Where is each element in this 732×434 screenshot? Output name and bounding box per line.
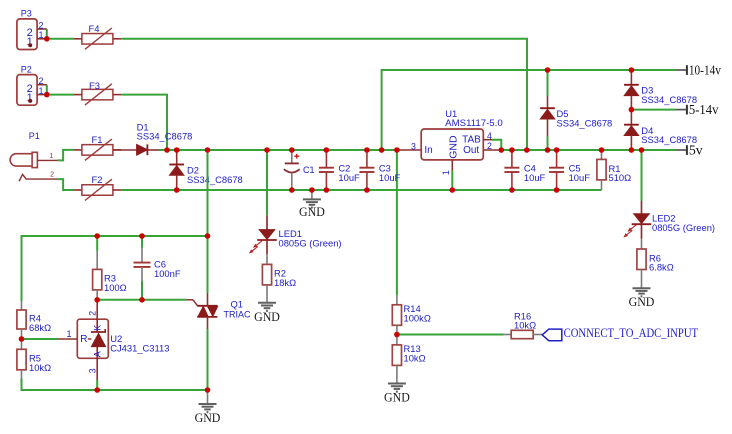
svg-text:2: 2 <box>487 141 492 151</box>
svg-text:1: 1 <box>441 170 451 175</box>
svg-text:GND: GND <box>299 204 325 219</box>
svg-text:2: 2 <box>88 311 98 316</box>
svg-text:GND: GND <box>447 135 459 159</box>
svg-text:10uF: 10uF <box>524 172 546 183</box>
svg-text:K: K <box>92 325 102 331</box>
svg-text:GND: GND <box>384 390 410 405</box>
svg-text:SS34_C8678: SS34_C8678 <box>137 131 193 142</box>
svg-text:100kΩ: 100kΩ <box>404 313 431 324</box>
svg-text:68kΩ: 68kΩ <box>29 322 51 333</box>
svg-text:10kΩ: 10kΩ <box>29 362 51 373</box>
svg-text:SS34_C8678: SS34_C8678 <box>641 134 697 145</box>
svg-text:510Ω: 510Ω <box>609 172 632 183</box>
svg-text:C1: C1 <box>303 165 315 175</box>
svg-text:GND: GND <box>195 410 221 425</box>
svg-text:2: 2 <box>39 76 44 86</box>
svg-text:2: 2 <box>50 171 54 178</box>
svg-text:3: 3 <box>411 141 416 151</box>
svg-text:F1: F1 <box>92 134 103 145</box>
svg-text:10kΩ: 10kΩ <box>404 353 426 364</box>
svg-text:100nF: 100nF <box>154 268 181 279</box>
svg-text:2: 2 <box>39 20 44 30</box>
svg-text:TRIAC: TRIAC <box>224 310 252 320</box>
svg-text:AMS1117-5.0: AMS1117-5.0 <box>445 117 503 128</box>
svg-text:1: 1 <box>39 86 44 96</box>
svg-text:F3: F3 <box>89 80 100 91</box>
svg-text:F4: F4 <box>89 23 100 34</box>
svg-text:R: R <box>80 334 87 345</box>
svg-text:Out: Out <box>463 145 479 156</box>
svg-text:6.8kΩ: 6.8kΩ <box>649 262 674 273</box>
svg-text:0805G (Green): 0805G (Green) <box>652 222 715 233</box>
svg-text:In: In <box>424 145 432 156</box>
svg-text:100Ω: 100Ω <box>104 282 127 293</box>
svg-text:Q1: Q1 <box>231 298 244 309</box>
svg-text:10uF: 10uF <box>569 172 591 183</box>
svg-text:4: 4 <box>487 131 492 141</box>
svg-text:GND: GND <box>254 309 280 324</box>
svg-text:3: 3 <box>88 368 98 373</box>
svg-text:SS34_C8678: SS34_C8678 <box>187 174 243 185</box>
svg-text:GND: GND <box>629 294 655 309</box>
svg-text:F2: F2 <box>92 174 103 185</box>
svg-text:P1: P1 <box>29 131 40 141</box>
svg-text:1: 1 <box>39 30 44 40</box>
svg-text:SS34_C8678: SS34_C8678 <box>641 94 697 105</box>
svg-text:10uF: 10uF <box>338 172 360 183</box>
svg-text:0805G (Green): 0805G (Green) <box>279 238 342 249</box>
svg-text:CONNECT_TO_ADC_INPUT: CONNECT_TO_ADC_INPUT <box>564 325 699 340</box>
svg-text:P2: P2 <box>21 64 32 74</box>
svg-text:1: 1 <box>67 329 72 339</box>
svg-text:TAB: TAB <box>462 135 481 146</box>
svg-text:CJ431_C3113: CJ431_C3113 <box>110 343 169 354</box>
svg-text:SS34_C8678: SS34_C8678 <box>557 117 613 128</box>
svg-text:10kΩ: 10kΩ <box>514 320 536 331</box>
svg-text:18kΩ: 18kΩ <box>274 277 296 288</box>
svg-text:10-14v: 10-14v <box>689 62 721 77</box>
svg-text:10uF: 10uF <box>379 172 401 183</box>
svg-text:A: A <box>92 351 102 357</box>
svg-text:P3: P3 <box>21 9 32 19</box>
svg-text:1: 1 <box>50 153 54 160</box>
